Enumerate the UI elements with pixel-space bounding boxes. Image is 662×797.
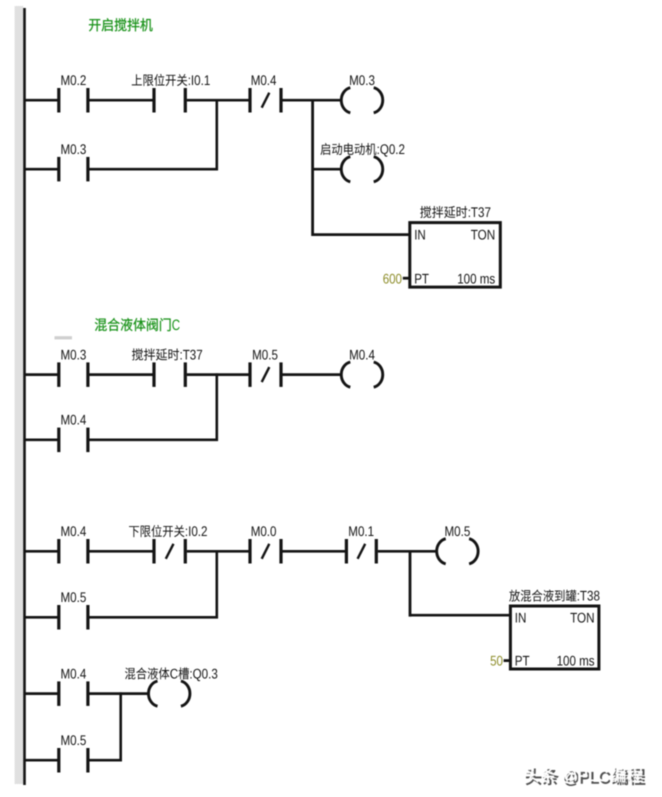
wire rung2 row2 rail to M0.4 <box>24 438 59 441</box>
contact M0.5 seal-in rung3 <box>57 605 60 630</box>
svg-text:C: C <box>172 317 180 334</box>
svg-text:M0.3: M0.3 <box>349 72 375 88</box>
timer T38 PT tick <box>504 659 511 662</box>
wire branch to timer T38 <box>410 614 510 617</box>
svg-text::T37: :T37 <box>180 346 203 362</box>
label 搅拌延时:T37 <box>132 348 179 360</box>
svg-text:M0.4: M0.4 <box>61 665 87 681</box>
wire M0.4 to junction rung2 <box>89 438 218 441</box>
svg-text::I0.1: :I0.1 <box>188 72 211 88</box>
svg-text::Q0.3: :Q0.3 <box>189 665 218 681</box>
contact M0.0 normally closed <box>248 539 251 564</box>
svg-text:PT: PT <box>414 270 429 286</box>
wire rung3 row2 rail to M0.5 <box>24 616 59 619</box>
svg-text:100 ms: 100 ms <box>457 270 495 286</box>
contact M0.5 normally closed rung2 <box>248 362 251 387</box>
contact 搅拌延时:T37 <box>152 362 155 387</box>
timer T37 PT tick <box>403 277 410 280</box>
wire rung4 rail to M0.4 <box>24 692 59 695</box>
contact M0.1 normally closed <box>345 539 348 564</box>
watermark 头条@PLC编程 shadow <box>526 769 645 788</box>
contact M0.3 (seal-in) <box>57 157 60 182</box>
contact M0.4 rung3 <box>57 539 60 564</box>
wire rung4 row2 rail to M0.5 <box>24 759 59 762</box>
timer T37 title 搅拌延时:T37 <box>420 206 467 218</box>
svg-text:M0.5: M0.5 <box>61 732 87 748</box>
timer T38 title 放混合液到罐:T38 <box>509 590 576 602</box>
svg-text:M0.4: M0.4 <box>61 523 87 539</box>
coil M0.4 <box>341 362 350 387</box>
contact M0.2 <box>57 88 60 113</box>
svg-text:PT: PT <box>515 653 530 669</box>
svg-text:TON: TON <box>570 609 595 625</box>
svg-text::Q0.2: :Q0.2 <box>377 141 406 157</box>
svg-text:M0.5: M0.5 <box>445 523 471 539</box>
left power rail <box>23 8 26 785</box>
svg-text:M0.3: M0.3 <box>61 141 87 157</box>
svg-text:IN: IN <box>515 609 527 625</box>
contact M0.5 rung4 row2 <box>57 748 60 773</box>
contact 下限位开关:I0.2 normally closed <box>152 539 155 564</box>
or-branch junction rung2 <box>216 373 219 441</box>
svg-text::I0.2: :I0.2 <box>185 523 208 539</box>
contact M0.4 normally closed <box>248 88 251 113</box>
svg-text::T37: :T37 <box>468 204 491 220</box>
wire branch to timer T37 <box>313 233 410 236</box>
wire M0.3 to junction <box>89 168 218 171</box>
svg-text:M0.4: M0.4 <box>349 346 375 362</box>
wire T37 to M0.5 <box>187 373 250 376</box>
coil M0.3 <box>341 88 350 113</box>
network 2 title 混合液体阀门C <box>95 318 171 331</box>
label 上限位开关:I0.1 <box>132 74 187 86</box>
wire M0.3 to T37 contact <box>89 373 154 376</box>
timer T37 box <box>410 223 501 288</box>
wire M0.4 to coil Q0.3 <box>89 692 149 695</box>
svg-text:M0.4: M0.4 <box>61 412 87 428</box>
svg-text:600: 600 <box>383 270 402 286</box>
svg-text:50: 50 <box>490 653 503 669</box>
contact M0.3 rung2 <box>57 362 60 387</box>
gray cursor dash <box>55 336 73 339</box>
label 混合液体C槽:Q0.3 <box>125 667 169 679</box>
contact 上限位开关:I0.1 <box>152 88 155 113</box>
wire I0.1 to M0.4 <box>187 99 250 102</box>
wire M0.4 to coil M0.3 <box>283 99 343 102</box>
wire M0.2 to I0.1 <box>89 99 154 102</box>
label 下限位开关:I0.2 <box>129 525 184 537</box>
svg-text:M0.0: M0.0 <box>251 523 277 539</box>
wire M0.0 to M0.1 <box>283 550 347 553</box>
svg-text:M0.5: M0.5 <box>61 589 87 605</box>
or-branch junction rung1 <box>216 99 219 170</box>
wire rung2 rail to M0.3 <box>24 373 59 376</box>
coil 启动电动机:Q0.2 <box>341 157 350 182</box>
timer T38 box <box>510 606 599 669</box>
svg-text::T38: :T38 <box>577 588 600 604</box>
wire M0.5 to junction rung4 <box>89 759 122 762</box>
contact M0.4 rung4 <box>57 681 60 706</box>
svg-text:M0.5: M0.5 <box>252 346 278 362</box>
svg-text:M0.3: M0.3 <box>61 346 87 362</box>
svg-text:M0.2: M0.2 <box>61 72 87 88</box>
svg-text:M0.4: M0.4 <box>251 72 277 88</box>
network 1 title 开启搅拌机 <box>89 18 153 31</box>
svg-text:C: C <box>170 665 178 681</box>
svg-text:IN: IN <box>414 226 426 242</box>
wire rung1 rail to M0.2 <box>24 99 59 102</box>
wire M0.5 to junction rung3 <box>89 616 218 619</box>
coil M0.5 <box>437 539 446 564</box>
wire branch to coil Q0.2 <box>313 168 343 171</box>
svg-text:@PLC: @PLC <box>561 767 608 785</box>
svg-text:TON: TON <box>471 226 496 242</box>
wire M0.1 to coil M0.5 <box>378 550 438 553</box>
wire rung3 rail to M0.4 <box>24 550 59 553</box>
contact M0.4 seal-in rung2 <box>57 428 60 453</box>
wire I0.2 to M0.0 <box>187 550 250 553</box>
wire M0.5 to coil M0.4 <box>283 373 343 376</box>
left margin shaded band <box>15 6 24 784</box>
coil 混合液体C槽:Q0.3 <box>148 681 157 706</box>
output branch column rung1 <box>311 99 314 236</box>
svg-text:100 ms: 100 ms <box>557 653 595 669</box>
svg-text:M0.1: M0.1 <box>348 523 374 539</box>
wire M0.4 to I0.2 <box>89 550 154 553</box>
or-branch junction rung4 <box>119 692 122 761</box>
output branch column rung3 <box>409 550 412 617</box>
wire rung1 row2 rail to M0.3 <box>24 168 59 171</box>
or-branch junction rung3 <box>216 550 219 618</box>
watermark 头条@PLC编程 face <box>524 766 643 785</box>
label 启动电动机:Q0.2 <box>321 143 377 155</box>
